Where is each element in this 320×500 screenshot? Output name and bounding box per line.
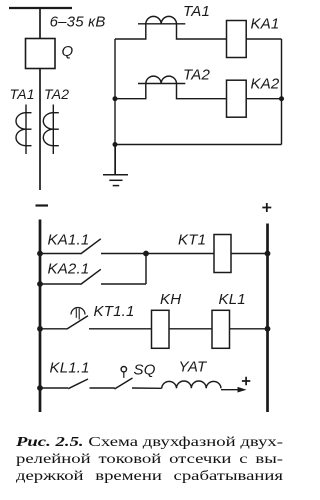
svg-text:YAT: YAT	[179, 359, 208, 376]
relay coil KA1	[227, 21, 247, 58]
current transformer TA1	[16, 105, 31, 155]
junction node row1 mid	[143, 251, 149, 257]
wire: arrow to plus	[221, 389, 239, 391]
junction node right KA2	[279, 96, 284, 101]
svg-text:KA1: KA1	[251, 16, 280, 33]
junction node row3 right	[265, 326, 271, 332]
wire: row1 to KT1	[146, 253, 268, 255]
junction node row4 left	[37, 385, 43, 391]
wire: CT circuit left rail	[114, 39, 116, 175]
wire: KL1 to positive bus	[230, 328, 268, 330]
busbar	[9, 7, 72, 9]
ground	[103, 145, 128, 186]
svg-text:TA2: TA2	[44, 86, 69, 102]
svg-text:KH: KH	[160, 291, 181, 308]
circuit breaker Q	[26, 39, 56, 69]
svg-text:KT1.1: KT1.1	[94, 303, 135, 320]
junction node row3 left	[37, 326, 43, 332]
current transformer TA2	[43, 105, 59, 155]
svg-text:KL1.1: KL1.1	[50, 360, 90, 377]
wire: feeder line	[39, 8, 41, 190]
negative bus	[39, 220, 42, 413]
svg-text:KA2.1: KA2.1	[48, 261, 90, 278]
wire: CT circuit return	[115, 144, 282, 146]
minus polarity	[36, 204, 49, 206]
TA2 secondary winding	[138, 76, 185, 83]
contact KL1.1	[40, 379, 115, 389]
positive bus	[266, 224, 269, 413]
svg-text:TA2: TA2	[183, 67, 210, 84]
svg-text:TA1: TA1	[183, 3, 210, 20]
svg-text:KL1: KL1	[219, 291, 246, 308]
svg-text:TA1: TA1	[10, 86, 35, 102]
caption	[16, 434, 283, 485]
svg-text:6–35 кВ: 6–35 кВ	[50, 14, 106, 31]
contact SQ	[115, 367, 162, 390]
svg-text:KA2: KA2	[251, 76, 280, 93]
relay coil KL1	[212, 310, 230, 348]
wire: CT circuit right rail	[281, 39, 283, 145]
plus label row4	[242, 377, 250, 385]
arrow head	[238, 387, 247, 393]
junction node row2 left	[37, 281, 43, 287]
svg-text:Q: Q	[62, 43, 74, 60]
trip coil YAT	[162, 381, 221, 388]
wire: KH to KL1	[169, 328, 212, 330]
relay coil KH	[152, 310, 170, 348]
junction node row1 left	[37, 251, 43, 257]
svg-text:SQ: SQ	[134, 362, 156, 379]
svg-text:KT1: KT1	[178, 232, 206, 249]
wire: TA2 row	[115, 84, 282, 99]
contact KT1.1 time delay	[40, 308, 152, 330]
TA1 secondary winding	[138, 16, 185, 23]
plus polarity	[262, 203, 271, 212]
junction node left return	[113, 142, 118, 147]
junction node left TA2	[113, 96, 118, 101]
contact KA1.1	[40, 239, 146, 254]
contact KA2.1	[40, 269, 146, 284]
svg-text:KA1.1: KA1.1	[48, 232, 90, 249]
relay coil KT1	[214, 235, 231, 273]
wire: TA1 row	[115, 24, 282, 39]
junction node row1 right	[265, 251, 271, 257]
relay coil KA2	[227, 80, 247, 117]
wire: row2 riser	[145, 254, 147, 285]
